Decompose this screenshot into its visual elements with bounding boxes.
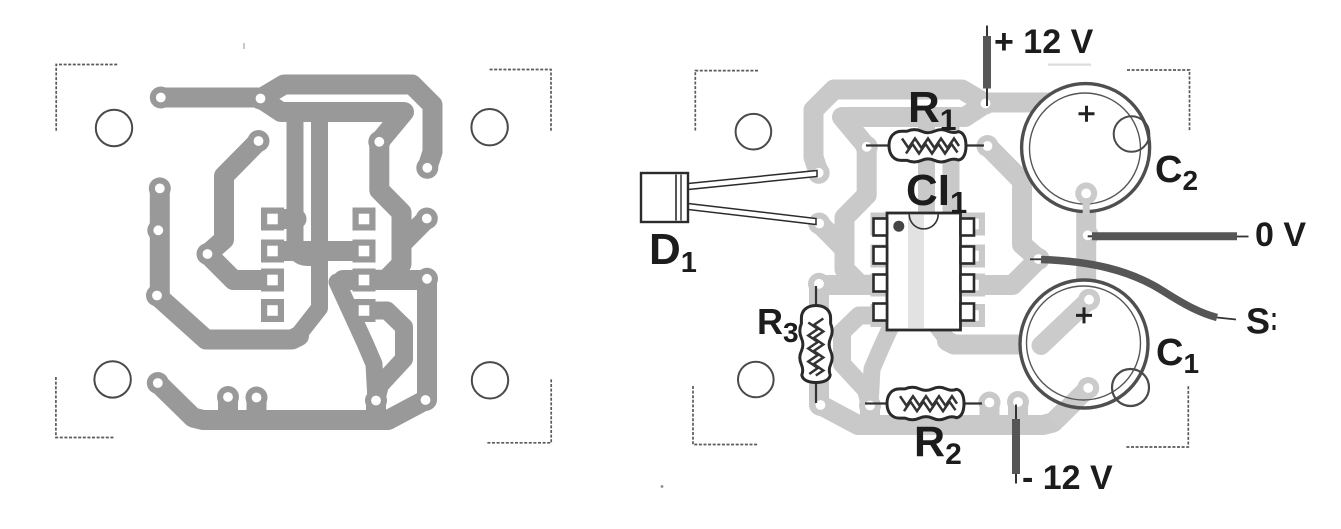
left board corner brackets <box>56 65 551 443</box>
IC CI1 pins <box>874 219 975 321</box>
left board mounting holes <box>94 109 508 398</box>
capacitor C1 <box>1020 280 1148 408</box>
right board corner brackets <box>693 70 1190 447</box>
svg-text:- 12 V: - 12 V <box>1022 459 1113 497</box>
svg-text:+ 12 V: + 12 V <box>994 23 1094 61</box>
left PCB copper traces <box>146 85 438 421</box>
scan speck between boards <box>661 485 664 488</box>
diode D1 body <box>641 173 688 222</box>
svg-text:D1: D1 <box>649 225 697 279</box>
resistor R1 leads <box>866 144 984 146</box>
resistor R3 body <box>800 306 832 383</box>
scan smudge under +12V <box>1048 64 1091 66</box>
svg-text:S: S <box>1246 301 1270 342</box>
resistor R3 leads <box>815 286 817 403</box>
faint scan mark <box>243 43 245 49</box>
right board mounting hole BR over C1 <box>1112 369 1149 406</box>
svg-text:C2: C2 <box>1155 149 1198 196</box>
right board mounting holes TL BL <box>736 114 774 397</box>
C1 rings and polarity <box>1020 280 1148 408</box>
resistor R1 body <box>889 130 966 162</box>
wire S <box>1030 259 1236 319</box>
wire +12V <box>986 26 988 107</box>
right PCB mirrored component-side traces <box>808 90 1100 426</box>
op-amp IC CI1 body <box>887 213 961 330</box>
wire -12V <box>1015 405 1017 484</box>
diode D1 leads <box>688 171 817 225</box>
resistor R2 leads <box>865 402 982 404</box>
C1 trace show-through <box>1041 289 1100 416</box>
svg-text:C1: C1 <box>1156 332 1199 379</box>
capacitor C2 <box>1022 84 1150 212</box>
wire 0V <box>1088 235 1249 237</box>
right board mounting hole TR over C2 <box>1114 116 1150 152</box>
C2 pad show-through <box>1075 182 1097 215</box>
svg-text:0 V: 0 V <box>1255 216 1306 254</box>
resistor R2 body <box>887 387 964 419</box>
svg-text:R3: R3 <box>757 301 799 348</box>
